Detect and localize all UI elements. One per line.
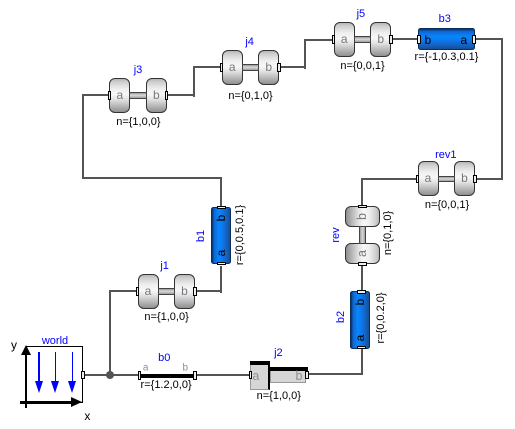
wire j4.frame_b to corner bbox=[280, 66, 306, 68]
joint rev1 revolute bbox=[418, 161, 476, 196]
wire horizontal to b1.frame_b bbox=[82, 177, 222, 179]
label j5 bbox=[357, 8, 366, 20]
wire rev.frame_b up to corner bbox=[361, 178, 363, 207]
wire corner to j4.frame_a bbox=[193, 66, 222, 68]
wire corner to j1.frame_b bbox=[196, 290, 222, 292]
label rev1 n value bbox=[425, 199, 469, 211]
wire junction to j1.frame_a horizontal bbox=[109, 290, 137, 292]
wire right edge vertical bbox=[501, 38, 503, 180]
label b3 r value bbox=[415, 51, 479, 63]
wire corner to rev1.frame_a bbox=[361, 178, 419, 180]
joint j2 prismatic bbox=[245, 355, 313, 395]
label j5 n value bbox=[340, 60, 384, 72]
body b0 fixed translation bbox=[130, 360, 205, 385]
wire corner vertical j4 to j5 bbox=[304, 39, 306, 69]
label rev1 bbox=[435, 149, 456, 161]
label world bbox=[42, 335, 68, 347]
wire j2.frame_b to corner bbox=[307, 373, 363, 375]
wire corner down to b1.frame_b bbox=[220, 177, 222, 208]
world frame bbox=[0, 330, 100, 429]
wire corner to j5.frame_a bbox=[304, 39, 335, 41]
wire world.frame_b to b0.frame_a bbox=[82, 374, 139, 376]
label b2 r value bbox=[375, 292, 387, 343]
joint j5 revolute bbox=[334, 22, 392, 57]
node junction bbox=[106, 371, 114, 379]
label j2 n value bbox=[257, 390, 301, 402]
wire junction up to j1.frame_a vertical bbox=[109, 290, 111, 375]
label b0 r value bbox=[141, 379, 192, 391]
label j1 n value bbox=[144, 311, 188, 323]
label j3 bbox=[134, 64, 143, 76]
joint j4 revolute bbox=[222, 50, 280, 85]
label j4 n value bbox=[228, 90, 272, 102]
label b0 bbox=[158, 352, 170, 364]
label rev bbox=[330, 227, 342, 242]
label b3 bbox=[439, 13, 451, 25]
wire j5.frame_b to b3.frame_b bbox=[392, 38, 417, 40]
joint rev revolute vertical bbox=[345, 206, 380, 264]
body b1 cylinder bbox=[211, 207, 231, 265]
wire rev1.frame_b to corner bbox=[475, 178, 503, 180]
wire b3.frame_a to corner bbox=[476, 38, 503, 40]
label b1 r value bbox=[234, 204, 246, 264]
wire corner vertical j3 to j4 bbox=[193, 66, 195, 97]
wire b2.frame_b to rev.frame_a bbox=[361, 266, 363, 291]
label x axis bbox=[84, 409, 90, 423]
wire b1.frame_a down to corner bbox=[220, 266, 222, 293]
label j4 bbox=[245, 36, 254, 48]
joint j3 revolute bbox=[109, 78, 167, 113]
wire j3.frame_b to corner bbox=[168, 94, 195, 96]
label y axis bbox=[11, 338, 17, 352]
joint j1 revolute bbox=[138, 274, 196, 309]
body b3 cylinder bbox=[418, 28, 475, 51]
label j3 n value bbox=[116, 116, 160, 128]
label j1 bbox=[160, 260, 169, 272]
wire corner up to b2.frame_a bbox=[361, 348, 363, 375]
label rev n value bbox=[382, 210, 394, 254]
label b2 bbox=[335, 311, 347, 323]
wire b0.frame_b to j2.frame_a bbox=[196, 374, 251, 376]
label b1 bbox=[195, 230, 207, 242]
wire j3.frame_a to left corner bbox=[82, 94, 110, 96]
label j2 bbox=[274, 347, 283, 359]
wire left edge vertical bbox=[82, 94, 84, 178]
body b2 cylinder bbox=[350, 291, 370, 349]
